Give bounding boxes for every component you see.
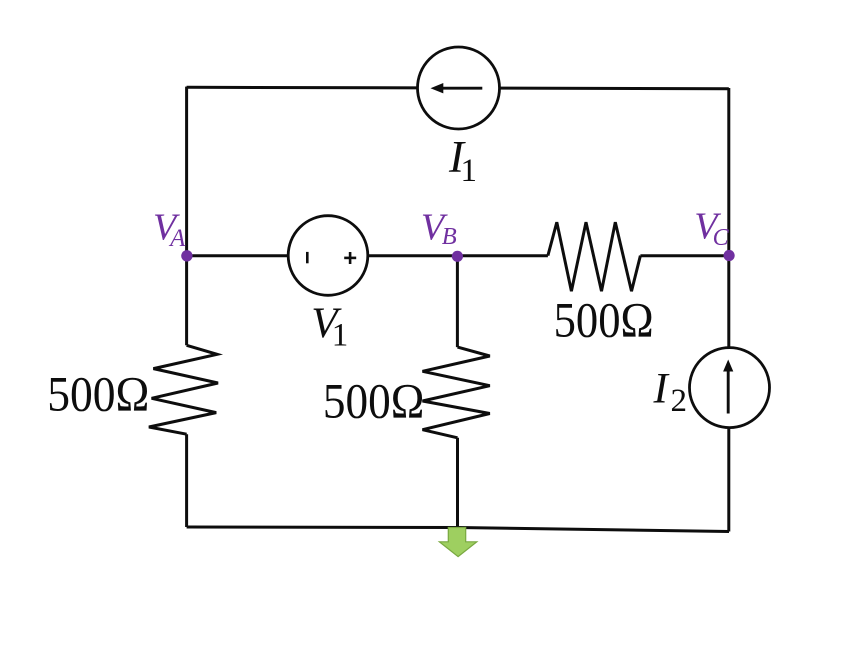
svg-text:500Ω: 500Ω [323, 374, 425, 429]
svg-text:1: 1 [332, 318, 349, 354]
svg-text:1: 1 [461, 153, 478, 189]
svg-text:A: A [168, 225, 186, 252]
svg-text:B: B [442, 223, 457, 250]
svg-text:I: I [653, 366, 670, 413]
svg-text:2: 2 [671, 383, 688, 419]
svg-text:C: C [713, 225, 730, 251]
svg-text:500Ω: 500Ω [554, 292, 654, 347]
svg-text:500Ω: 500Ω [47, 367, 149, 422]
